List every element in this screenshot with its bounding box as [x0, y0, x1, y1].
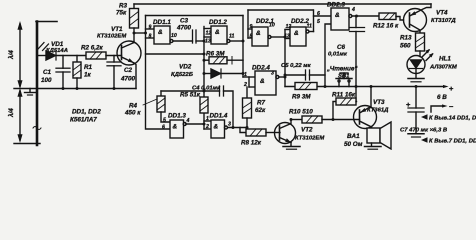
wire antenna to VD1 [39, 55, 47, 57]
svg-text:КТ3107Д: КТ3107Д [431, 18, 456, 24]
svg-text:9: 9 [149, 25, 152, 31]
svg-text:11: 11 [229, 34, 234, 40]
svg-text:1к: 1к [84, 72, 92, 79]
resistor R10 [290, 116, 360, 123]
capacitor C7 [406, 87, 424, 134]
svg-text:0,01мк: 0,01мк [328, 52, 348, 58]
wire DD1.2 pin13 [204, 36, 211, 38]
svg-text:6 В: 6 В [437, 94, 447, 101]
ground under VT2 [283, 147, 300, 150]
op gate DD1.3 [170, 120, 204, 138]
jog to R4 [146, 53, 205, 55]
svg-text:2: 2 [243, 82, 247, 88]
wire DD2.2 pin12 [285, 29, 290, 31]
wire DD1.1 pin8 [146, 37, 155, 39]
top supply rail [134, 3, 431, 5]
svg-text:1: 1 [206, 116, 209, 122]
feedback wire DD2.2 out to DD2.1 in [248, 9, 313, 11]
svg-text:DD1.4: DD1.4 [210, 113, 228, 120]
wire DD1.1 pin9 [146, 28, 155, 30]
op gate DD2.3 [331, 8, 379, 30]
svg-text:5: 5 [317, 19, 320, 25]
capacitor C1 [56, 56, 70, 89]
resistor R2 [86, 52, 106, 59]
arrow to pin 14 [421, 114, 428, 119]
svg-text:R13: R13 [400, 35, 412, 42]
resistor R7 [243, 87, 252, 129]
resistor R6 [203, 53, 244, 65]
svg-text:R6 3М: R6 3М [206, 51, 225, 58]
svg-text:4: 4 [351, 7, 355, 13]
svg-text:12: 12 [206, 31, 212, 37]
svg-text:К Выв.7 DD1, DD2: К Выв.7 DD1, DD2 [429, 139, 476, 145]
resistor R13 [416, 33, 425, 57]
vertical DD2.2 out to feedback [313, 10, 315, 32]
svg-text:&: & [173, 124, 178, 131]
svg-text:&: & [215, 29, 220, 36]
wire DD1.2 pin12 [204, 28, 211, 30]
svg-text:HL1: HL1 [439, 56, 451, 63]
op gate DD2.4 [255, 71, 285, 95]
resistor R9 [295, 83, 317, 90]
svg-text:VT4: VT4 [436, 10, 448, 17]
svg-text:R3: R3 [119, 3, 128, 10]
svg-text:1: 1 [244, 72, 247, 78]
svg-text:VD1: VD1 [51, 41, 64, 48]
ground under HL1 [408, 79, 424, 82]
svg-text:КД514А: КД514А [46, 48, 68, 54]
svg-text:−: − [449, 102, 454, 111]
svg-text:R9 3М: R9 3М [292, 94, 311, 101]
svg-text:4700: 4700 [176, 25, 192, 32]
feedback wire DD1.2 out to DD1.1 in [146, 15, 244, 17]
op gate DD1.2 [211, 26, 243, 44]
transistor VT2 [275, 120, 296, 147]
LED HL1 [407, 49, 434, 78]
long input vertical (DD1.1 in / DD1.3 pin6 net) [144, 16, 170, 130]
bus wire to C4 [161, 90, 220, 92]
svg-text:C1: C1 [43, 69, 52, 76]
svg-text:&: & [260, 78, 265, 85]
svg-text:450 к: 450 к [124, 110, 141, 117]
svg-text:КТ3102ЕМ: КТ3102ЕМ [97, 34, 127, 40]
wire R2 to VT1 base [106, 55, 122, 57]
svg-text:DD2.3: DD2.3 [327, 2, 345, 9]
leader R4 [143, 99, 157, 105]
capacitor C3 [193, 30, 205, 43]
svg-text:2: 2 [205, 124, 209, 130]
svg-text:62к: 62к [255, 107, 266, 114]
svg-text:8: 8 [250, 34, 253, 40]
op gate DD2.4 inputs [243, 77, 255, 87]
svg-text:4: 4 [186, 118, 190, 124]
svg-text:SB1: SB1 [338, 74, 349, 80]
svg-text:VT3: VT3 [373, 99, 385, 106]
svg-text:КД522Б: КД522Б [171, 72, 193, 78]
svg-text:6: 6 [162, 125, 165, 131]
speaker BA1 [367, 122, 391, 149]
svg-text:DD1.3: DD1.3 [168, 113, 186, 120]
wire VD1 to R2 [56, 55, 86, 57]
svg-text:C5 0,22 мк: C5 0,22 мк [281, 63, 312, 69]
svg-text:VT1: VT1 [111, 26, 123, 33]
transistor VT3 [354, 87, 377, 129]
vertical DD1.2 out net down to DD2.4 [242, 16, 245, 78]
resistor R4 [157, 91, 170, 122]
capacitor C2 [107, 56, 121, 89]
svg-text:C6: C6 [337, 44, 346, 51]
dimension arrows λ/4 lower [18, 91, 21, 141]
diode VD2 [203, 69, 245, 78]
capacitor C6 [350, 16, 365, 102]
svg-text:5: 5 [163, 118, 166, 124]
svg-text:DD1.2: DD1.2 [209, 19, 227, 26]
op gate DD1.4 [211, 120, 247, 138]
svg-text:&: & [158, 29, 163, 36]
svg-text:8: 8 [149, 34, 152, 40]
minus terminal [431, 104, 448, 112]
wire DD2.2 pin13 [285, 38, 290, 40]
svg-text:4700: 4700 [120, 76, 136, 83]
svg-text:3: 3 [271, 71, 274, 77]
op gate DD2.1 inputs [248, 10, 252, 38]
svg-text:11: 11 [307, 24, 312, 30]
dimension arrows λ/4 upper [18, 24, 21, 87]
svg-text:R7: R7 [257, 100, 266, 107]
svg-text:10: 10 [171, 33, 177, 39]
svg-text:13: 13 [284, 34, 290, 40]
svg-text:&: & [214, 124, 219, 131]
svg-text:&: & [335, 12, 340, 19]
svg-text:R12 16 к: R12 16 к [373, 23, 399, 30]
resistor R1 [73, 56, 81, 89]
svg-text:&: & [294, 30, 299, 37]
ground under C7 [408, 134, 424, 137]
resistor R5 [200, 97, 208, 113]
wire DD1.4 pin1 [204, 120, 211, 122]
wire DD1.4 pin2 [204, 128, 211, 130]
svg-text:R8 12к: R8 12к [241, 140, 262, 147]
wire DD2.3 pin5 + vertical [325, 24, 331, 87]
op gate DD1.1 [154, 26, 193, 44]
svg-text:АЛ307КМ: АЛ307КМ [429, 65, 458, 71]
transistor VT1 [117, 33, 141, 89]
svg-text:DD1.1: DD1.1 [153, 19, 171, 26]
svg-text:R10 510: R10 510 [289, 109, 313, 116]
svg-text:&: & [256, 30, 261, 37]
svg-text:R1: R1 [84, 64, 93, 71]
svg-text:C2: C2 [124, 67, 133, 74]
svg-text:VT2: VT2 [301, 127, 313, 134]
wire R9/SB1 row / +6V supply line with arrow [285, 85, 449, 88]
svg-text:КТ3102ЕМ: КТ3102ЕМ [295, 136, 325, 142]
wire DD2.3 pin6 [314, 15, 332, 17]
svg-text:100: 100 [41, 77, 52, 84]
antenna whip (heavy vertical) [14, 22, 57, 146]
DD1.2 input tie vertical / mid net [203, 27, 206, 130]
svg-text:12: 12 [286, 24, 292, 30]
svg-text:DD2.4: DD2.4 [252, 65, 270, 72]
button SB1 [336, 73, 352, 87]
svg-text:VD2: VD2 [179, 64, 192, 71]
node A vertical [284, 30, 287, 87]
antenna coupling marks [38, 43, 49, 51]
resistor R3 [130, 4, 139, 33]
svg-text:+: + [449, 84, 454, 93]
svg-text:К Выв.14 DD1, DD2: К Выв.14 DD1, DD2 [429, 116, 476, 122]
svg-text:+: + [406, 100, 411, 109]
svg-text:560: 560 [400, 43, 411, 50]
svg-text:BA1: BA1 [347, 133, 360, 140]
wire VT1 collector node [133, 32, 146, 35]
diode VD1 [46, 51, 56, 60]
svg-text:λ/4: λ/4 [7, 50, 15, 60]
svg-text:К561ЛА7: К561ЛА7 [70, 117, 97, 124]
svg-text:13: 13 [205, 39, 211, 45]
svg-text:„Чтение“: „Чтение“ [326, 66, 358, 73]
op gate DD2.1 [252, 27, 285, 46]
svg-text:R2 6,2к: R2 6,2к [81, 45, 104, 52]
ground symbol [25, 89, 36, 96]
op gate DD2.2 [290, 27, 314, 46]
resistor R12 [379, 13, 404, 20]
resistor R11 [333, 98, 357, 120]
ground under BA1 [365, 147, 382, 150]
svg-text:3: 3 [228, 122, 231, 128]
svg-text:R11 16к: R11 16к [332, 92, 356, 99]
svg-text:50 Ом: 50 Ом [344, 141, 363, 148]
svg-text:R5 51к: R5 51к [180, 92, 201, 99]
svg-text:9: 9 [250, 24, 253, 30]
svg-text:DD1, DD2: DD1, DD2 [72, 109, 101, 116]
capacitor C4 [220, 86, 235, 129]
svg-text:КТ361Д: КТ361Д [367, 108, 389, 114]
svg-text:6: 6 [317, 11, 320, 17]
resistor R8 [240, 128, 280, 137]
svg-text:75к: 75к [116, 10, 127, 17]
svg-text:10: 10 [269, 23, 275, 29]
transistor VT4 [404, 4, 432, 33]
svg-text:R4: R4 [129, 103, 138, 110]
arrow to pin 7 [421, 137, 428, 142]
svg-text:C7 470 мк ×6,3 В: C7 470 мк ×6,3 В [400, 128, 448, 134]
ground rail (0V bus left) [14, 87, 136, 90]
svg-text:C3: C3 [180, 18, 189, 25]
capacitor C5 [285, 70, 325, 80]
svg-text:λ/4: λ/4 [7, 108, 15, 118]
